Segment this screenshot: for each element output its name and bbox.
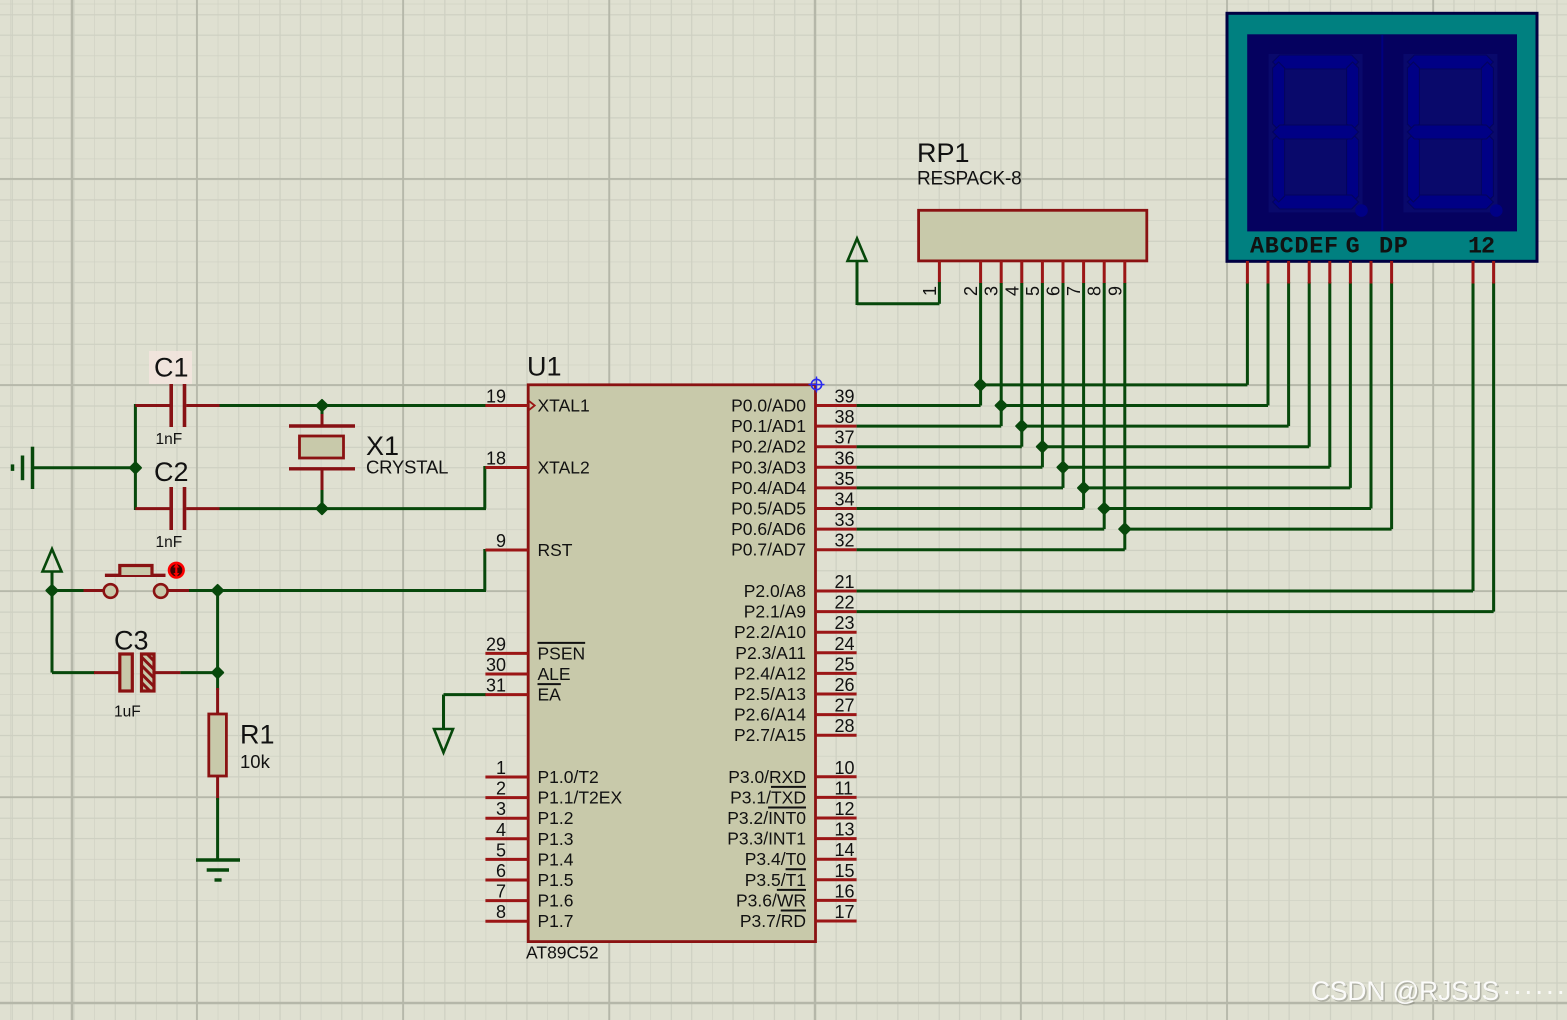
node P0.3/RP1 junction xyxy=(1037,441,1048,452)
crystal X1 xyxy=(289,407,355,508)
pin 28 P2.7/A15 (U1 right) xyxy=(734,716,857,745)
svg-text:36: 36 xyxy=(835,448,855,468)
pin 1 (display) xyxy=(1472,261,1475,284)
pin 22 P2.1/A9 (U1 right) xyxy=(744,593,857,622)
svg-text:35: 35 xyxy=(835,469,855,489)
svg-text:P2.0/A8: P2.0/A8 xyxy=(744,581,806,601)
svg-text:32: 32 xyxy=(835,531,855,551)
svg-text:8: 8 xyxy=(496,902,506,922)
wire R1 to ground xyxy=(216,798,219,859)
display digit 2 background xyxy=(1403,54,1497,212)
wire C2 to XTAL2 corner xyxy=(220,466,487,509)
pin 38 P0.1/AD1 (U1 right) xyxy=(731,407,857,436)
capacitor C3 (polarized) xyxy=(94,654,180,691)
pin 32 P0.7/AD7 (U1 right) xyxy=(731,531,857,560)
pin 17 P3.7/RD (U1 right) xyxy=(740,902,857,931)
svg-text:1: 1 xyxy=(496,758,506,778)
svg-text:1uF: 1uF xyxy=(114,704,141,721)
svg-text:1: 1 xyxy=(920,286,940,296)
wire P0.7 net (chip to RP1 pin 9 to display) xyxy=(857,282,1392,550)
svg-text:3: 3 xyxy=(982,286,1002,296)
svg-text:1nF: 1nF xyxy=(156,431,183,448)
svg-text:P1.4: P1.4 xyxy=(538,849,574,869)
svg-text:13: 13 xyxy=(835,820,855,840)
svg-text:P2.6/A14: P2.6/A14 xyxy=(734,705,806,725)
pin D (display) xyxy=(1308,261,1311,284)
wire junction to button xyxy=(52,589,84,592)
wire node to C3 xyxy=(216,591,219,675)
wire C1/C2 left vertical xyxy=(134,404,137,510)
svg-text:12: 12 xyxy=(835,799,855,819)
display digit 2 segment D xyxy=(1407,195,1493,209)
node C1/C2 ground junction xyxy=(130,462,141,473)
svg-text:14: 14 xyxy=(835,840,855,860)
display digit 1 segment E xyxy=(1273,134,1285,202)
svg-text:P3.2/INT0: P3.2/INT0 xyxy=(727,808,806,828)
origin marker (blue crosshair) xyxy=(809,377,825,393)
svg-text:P1.5: P1.5 xyxy=(538,870,574,890)
svg-text:5: 5 xyxy=(496,840,506,860)
pin B (display) xyxy=(1267,261,1270,284)
pin 1 (RP1) xyxy=(920,261,940,296)
svg-text:C1: C1 xyxy=(154,353,189,383)
push button (switch) xyxy=(84,566,190,598)
pin 18 XTAL2 (U1 left) xyxy=(485,449,589,478)
svg-text:P0.6/AD6: P0.6/AD6 xyxy=(731,519,806,539)
pin 10 P3.0/RXD (U1 right) xyxy=(728,758,856,787)
svg-text:7: 7 xyxy=(1064,286,1084,296)
svg-text:P2.5/A13: P2.5/A13 xyxy=(734,684,806,704)
svg-text:38: 38 xyxy=(835,407,855,427)
svg-text:DP: DP xyxy=(1379,234,1409,261)
svg-text:6: 6 xyxy=(496,861,506,881)
svg-text:P3.6/WR: P3.6/WR xyxy=(736,890,806,910)
svg-text:37: 37 xyxy=(835,428,855,448)
svg-text:P2.3/A11: P2.3/A11 xyxy=(735,643,806,663)
wire P0.5 net (chip to RP1 pin 7 to display) xyxy=(857,282,1351,509)
svg-text:C2: C2 xyxy=(154,457,189,487)
node P0.1/RP1 junction xyxy=(996,400,1007,411)
svg-text:29: 29 xyxy=(486,634,506,654)
pin 31 EA (U1 left) xyxy=(485,676,561,705)
pin 8 (RP1) xyxy=(1085,261,1105,296)
pin 23 P2.2/A10 (U1 right) xyxy=(734,613,857,642)
pin 16 P3.6/WR (U1 right) xyxy=(736,881,857,910)
pin 5 (RP1) xyxy=(1023,261,1043,296)
pin 4 P1.3 (U1 left) xyxy=(485,820,573,849)
svg-text:ABCDEF: ABCDEF xyxy=(1250,234,1339,261)
node crystal bottom junction xyxy=(316,503,327,514)
ground GND1 (left, rotated) xyxy=(13,447,33,489)
wire P0.0 net (chip to RP1 pin 2 to display) xyxy=(857,282,1248,406)
pin A (display) xyxy=(1246,261,1249,284)
wire P0.2 net (chip to RP1 pin 4 to display) xyxy=(857,282,1289,447)
svg-text:P3.7/RD: P3.7/RD xyxy=(740,911,806,931)
svg-text:25: 25 xyxy=(835,654,855,674)
svg-text:CSDN @RJSJS: CSDN @RJSJS xyxy=(1311,976,1499,1006)
svg-text:P0.7/AD7: P0.7/AD7 xyxy=(731,540,806,560)
pin 13 P3.3/INT1 (U1 right) xyxy=(727,820,856,849)
pin 6 P1.5 (U1 left) xyxy=(485,861,573,890)
svg-text:21: 21 xyxy=(835,572,855,592)
svg-text:XTAL1: XTAL1 xyxy=(538,396,590,416)
svg-text:RESPACK-8: RESPACK-8 xyxy=(917,169,1022,190)
svg-text:P1.6: P1.6 xyxy=(538,891,574,911)
pin E (display) xyxy=(1328,261,1331,284)
display digit 1 segment B xyxy=(1347,62,1359,130)
svg-text:22: 22 xyxy=(835,593,855,613)
svg-text:39: 39 xyxy=(835,387,855,407)
pin 29 PSEN (U1 left) xyxy=(485,634,585,663)
power symbol VCC1 (up arrow) xyxy=(43,549,62,591)
node P0.7/RP1 junction xyxy=(1119,524,1130,535)
svg-text:33: 33 xyxy=(835,510,855,530)
display digit 2 segment E xyxy=(1407,134,1419,202)
node C3/R1 junction xyxy=(212,667,223,678)
svg-text:C3: C3 xyxy=(114,626,149,656)
node P0.5/RP1 junction xyxy=(1078,482,1089,493)
pin G (display) xyxy=(1370,261,1373,284)
display digit 1 decimal point xyxy=(1355,204,1368,217)
svg-text:P1.7: P1.7 xyxy=(538,911,574,931)
svg-text:P0.1/AD1: P0.1/AD1 xyxy=(731,416,806,436)
svg-text:XTAL2: XTAL2 xyxy=(538,458,590,478)
display digit 2 segment G xyxy=(1407,125,1493,139)
svg-text:10k: 10k xyxy=(240,751,271,772)
pin 11 P3.1/TXD (U1 right) xyxy=(730,778,856,807)
svg-text:4: 4 xyxy=(496,820,506,840)
svg-text:CRYSTAL: CRYSTAL xyxy=(366,457,448,478)
svg-text:15: 15 xyxy=(835,861,855,881)
svg-text:P3.3/INT1: P3.3/INT1 xyxy=(727,829,806,849)
svg-text:P3.5/T1: P3.5/T1 xyxy=(745,870,806,890)
wire ground to C1/C2 node xyxy=(34,466,135,469)
svg-text:R1: R1 xyxy=(240,720,275,750)
display digit 1 segment C xyxy=(1347,134,1359,202)
svg-text:G: G xyxy=(1346,234,1360,261)
svg-text:P0.4/AD4: P0.4/AD4 xyxy=(731,478,806,498)
pin 35 P0.4/AD4 (U1 right) xyxy=(731,469,857,498)
pin 3 (RP1) xyxy=(982,261,1002,296)
svg-text:16: 16 xyxy=(835,881,855,901)
svg-text:P3.0/RXD: P3.0/RXD xyxy=(728,767,806,787)
microcontroller U1 AT89C52 body xyxy=(528,385,815,942)
wire P0.6 net (chip to RP1 pin 8 to display) xyxy=(857,282,1371,529)
display digit 2 segment A xyxy=(1407,55,1493,69)
pin 2 P1.1/T2EX (U1 left) xyxy=(485,779,622,808)
pin 9 RST (U1 left) xyxy=(485,531,572,560)
display digit 2 segment B xyxy=(1481,62,1493,130)
svg-text:6: 6 xyxy=(1044,286,1064,296)
pin 12 P3.2/INT0 (U1 right) xyxy=(727,799,856,828)
display pin labels ABCDEFG DP 1 2 xyxy=(1250,234,1495,261)
pin 39 P0.0/AD0 (U1 right) xyxy=(731,387,857,416)
svg-text:2: 2 xyxy=(496,779,506,799)
node P0.4/RP1 junction xyxy=(1057,462,1068,473)
svg-text:······: ······ xyxy=(1502,975,1567,1006)
svg-text:8: 8 xyxy=(1085,286,1105,296)
svg-text:28: 28 xyxy=(835,716,855,736)
pin 21 P2.0/A8 (U1 right) xyxy=(744,572,857,601)
svg-text:5: 5 xyxy=(1023,286,1043,296)
svg-text:27: 27 xyxy=(835,696,855,716)
watermark CSDN xyxy=(1311,975,1567,1008)
display digit 2 decimal point xyxy=(1490,204,1503,217)
svg-text:RP1: RP1 xyxy=(917,138,970,168)
svg-text:PSEN: PSEN xyxy=(538,643,586,663)
node P0.0/RP1 junction xyxy=(975,379,986,390)
pin 24 P2.3/A11 (U1 right) xyxy=(735,634,856,663)
node P0.6/RP1 junction xyxy=(1099,503,1110,514)
display digit 1 segment F xyxy=(1273,62,1285,130)
button interactive marker (red) xyxy=(168,562,185,579)
display digit 2 segment C xyxy=(1481,134,1493,202)
pin 25 P2.4/A12 (U1 right) xyxy=(734,654,857,683)
node button right junction xyxy=(212,585,223,596)
pin 4 (RP1) xyxy=(1002,261,1022,296)
svg-text:P0.2/AD2: P0.2/AD2 xyxy=(731,437,806,457)
node button left junction xyxy=(46,585,57,596)
svg-text:P0.5/AD5: P0.5/AD5 xyxy=(731,499,806,519)
wire P2.0 net (chip to display pin 1) xyxy=(857,282,1473,591)
svg-text:P3.1/TXD: P3.1/TXD xyxy=(730,787,806,807)
svg-text:1nF: 1nF xyxy=(156,534,183,551)
svg-text:P2.4/A12: P2.4/A12 xyxy=(734,663,806,683)
svg-text:23: 23 xyxy=(835,613,855,633)
display digit 1 segment A xyxy=(1273,55,1359,69)
pin 7 P1.6 (U1 left) xyxy=(485,882,573,911)
display digit 1 segment D xyxy=(1273,195,1359,209)
svg-text:P1.1/T2EX: P1.1/T2EX xyxy=(538,788,623,808)
svg-text:31: 31 xyxy=(486,676,506,696)
wire VCC down to C3 xyxy=(52,591,95,673)
ground GND2 (below R1) xyxy=(196,860,240,880)
pin F (display) xyxy=(1349,261,1352,284)
svg-text:EA: EA xyxy=(538,685,562,705)
svg-text:P2.2/A10: P2.2/A10 xyxy=(734,622,806,642)
7-segment display body xyxy=(1227,13,1537,261)
pin 2 (display) xyxy=(1492,261,1495,284)
svg-text:34: 34 xyxy=(835,490,855,510)
svg-text:17: 17 xyxy=(835,902,855,922)
pin 33 P0.6/AD6 (U1 right) xyxy=(731,510,857,539)
display digit 1 segment G xyxy=(1273,125,1359,139)
power symbol VCC2 (up arrow at RP1) xyxy=(848,239,867,306)
pin 5 P1.4 (U1 left) xyxy=(485,840,573,869)
highlight behind C1 label xyxy=(149,351,192,384)
pin 27 P2.6/A14 (U1 right) xyxy=(734,696,857,725)
wire P0.3 net (chip to RP1 pin 5 to display) xyxy=(857,282,1310,467)
svg-text:P1.0/T2: P1.0/T2 xyxy=(538,767,599,787)
svg-text:P2.7/A15: P2.7/A15 xyxy=(734,725,806,745)
svg-text:26: 26 xyxy=(835,675,855,695)
node crystal top junction xyxy=(316,400,327,411)
pin 26 P2.5/A13 (U1 right) xyxy=(734,675,857,704)
svg-text:7: 7 xyxy=(496,882,506,902)
pin 34 P0.5/AD5 (U1 right) xyxy=(731,490,857,519)
svg-text:11: 11 xyxy=(835,778,854,798)
wire RST riser xyxy=(483,549,486,591)
resistor R1 xyxy=(209,673,227,800)
pin 6 (RP1) xyxy=(1044,261,1064,296)
svg-text:P1.2: P1.2 xyxy=(538,808,574,828)
pin 30 ALE (U1 left) xyxy=(485,655,570,684)
wire P0.4 net (chip to RP1 pin 6 to display) xyxy=(857,282,1330,488)
svg-text:P0.0/AD0: P0.0/AD0 xyxy=(731,396,806,416)
svg-text:18: 18 xyxy=(486,449,506,469)
pin 15 P3.5/T1 (U1 right) xyxy=(745,861,857,890)
wire C1 to XTAL1 xyxy=(220,404,487,407)
pin 37 P0.2/AD2 (U1 right) xyxy=(731,428,857,457)
resistor pack RP1 body xyxy=(919,210,1147,261)
wire EA to ground arrow xyxy=(444,695,487,729)
svg-text:P1.3: P1.3 xyxy=(538,829,574,849)
wire P2.1 net (chip to display pin 2) xyxy=(857,282,1494,612)
pin 1 P1.0/T2 (U1 left) xyxy=(485,758,598,787)
wire C3 to R1 node xyxy=(180,671,217,674)
svg-text:RST: RST xyxy=(538,540,573,560)
svg-text:P2.1/A9: P2.1/A9 xyxy=(744,602,806,622)
svg-text:1: 1 xyxy=(1468,234,1482,261)
capacitor C1 xyxy=(135,384,219,427)
node P0.2/RP1 junction xyxy=(1016,421,1027,432)
pin 3 P1.2 (U1 left) xyxy=(485,799,573,828)
svg-text:10: 10 xyxy=(835,758,855,778)
svg-text:P3.4/T0: P3.4/T0 xyxy=(745,849,807,869)
ground arrow (down) at EA xyxy=(434,729,453,753)
pin 2 (RP1) xyxy=(961,261,981,296)
pin 8 P1.7 (U1 left) xyxy=(485,902,573,931)
svg-text:30: 30 xyxy=(486,655,506,675)
pin 9 (RP1) xyxy=(1105,261,1125,296)
pin C (display) xyxy=(1287,261,1290,284)
pin 36 P0.3/AD3 (U1 right) xyxy=(731,448,857,477)
display digit 2 segment F xyxy=(1407,62,1419,130)
capacitor C2 xyxy=(135,487,219,530)
svg-text:3: 3 xyxy=(496,799,506,819)
wire VCC2 to RP1 pin 1 xyxy=(857,282,939,304)
svg-text:U1: U1 xyxy=(527,352,562,382)
pin DP (display) xyxy=(1390,261,1393,284)
display digit 1 background xyxy=(1269,54,1363,212)
pin 7 (RP1) xyxy=(1064,261,1084,296)
svg-text:2: 2 xyxy=(1481,234,1495,261)
svg-text:9: 9 xyxy=(496,531,506,551)
wire P0.1 net (chip to RP1 pin 3 to display) xyxy=(857,282,1268,426)
pin 14 P3.4/T0 (U1 right) xyxy=(745,840,857,869)
svg-text:P0.3/AD3: P0.3/AD3 xyxy=(731,457,806,477)
svg-text:4: 4 xyxy=(1002,286,1022,296)
svg-text:9: 9 xyxy=(1105,286,1125,296)
pin 19 XTAL1 (U1 left) xyxy=(485,387,589,416)
svg-text:AT89C52: AT89C52 xyxy=(526,943,599,963)
wire button to RST net xyxy=(189,589,486,592)
svg-text:19: 19 xyxy=(486,387,506,407)
svg-text:2: 2 xyxy=(961,286,981,296)
svg-text:ALE: ALE xyxy=(538,664,571,684)
svg-text:24: 24 xyxy=(835,634,855,654)
display digit divider xyxy=(1381,35,1383,231)
